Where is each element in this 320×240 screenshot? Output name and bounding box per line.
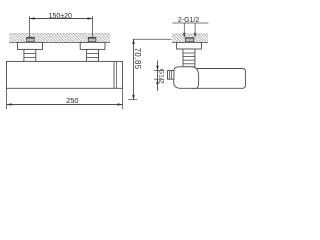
leader arrow right — [194, 33, 197, 38]
escutcheon (side) — [177, 42, 202, 49]
extension line left (150 dim) — [29, 16, 31, 38]
extension line right (250 dim) — [122, 88, 124, 109]
right connector nipple — [87, 49, 99, 61]
handle cylinder (side view) — [193, 69, 245, 89]
svg-text:G1/2: G1/2 — [158, 69, 165, 84]
arrow left of 250 dim — [7, 103, 12, 106]
70.85 dim top extension line — [133, 38, 172, 40]
G1/2 dim arrow upper (pointing down) — [156, 66, 159, 71]
mixer body (front view) — [7, 61, 123, 88]
dimension 250 line — [7, 104, 123, 106]
leader line left — [183, 23, 185, 37]
70.85 dim bottom tick — [128, 99, 137, 101]
70.85 arrow bottom (pointing down) — [132, 95, 135, 100]
svg-text:150±20: 150±20 — [49, 13, 72, 20]
leader line right — [194, 23, 196, 37]
dimension 150±20 line — [30, 18, 93, 20]
G1/2 dim top tick — [154, 70, 164, 72]
G1/2 dim bottom tick — [154, 78, 164, 80]
left connector nipple — [24, 49, 36, 61]
arrow right of 150 dim — [88, 17, 93, 20]
wall top line — [9, 33, 110, 35]
wall face line — [9, 41, 110, 43]
connector nipple (side) — [183, 49, 195, 67]
arrow left of 150 dim — [30, 17, 35, 20]
leader arrow left — [183, 33, 186, 38]
70.85 arrow top (pointing up) — [132, 39, 135, 44]
wall face line (side) — [172, 41, 208, 43]
70.85 dim line — [133, 39, 135, 99]
arrow right of 250 dim — [118, 103, 123, 106]
body end cap line 1 — [113, 61, 115, 88]
inlet fitting in wall (side) — [185, 38, 193, 43]
extension line right (150 dim) — [92, 16, 94, 38]
wall section block (side view) — [172, 34, 208, 42]
left inlet fitting in wall — [27, 37, 35, 42]
extension line left (250 dim) — [6, 88, 8, 109]
svg-text:70.85: 70.85 — [133, 48, 142, 70]
G1/2 dim arrow lower (pointing up) — [156, 79, 159, 84]
right escutcheon — [80, 42, 105, 49]
svg-text:250: 250 — [66, 96, 78, 105]
outlet stub (side view) — [168, 71, 174, 80]
G1/2 dim line — [157, 61, 159, 92]
valve body (side view) — [174, 67, 199, 89]
right inlet fitting in wall — [88, 37, 96, 42]
label underline shelf — [172, 22, 208, 24]
body end cap line 2 — [116, 61, 118, 88]
left escutcheon — [18, 42, 43, 49]
wall section (hatched) — [9, 34, 110, 43]
wall top line (side) — [172, 33, 208, 35]
